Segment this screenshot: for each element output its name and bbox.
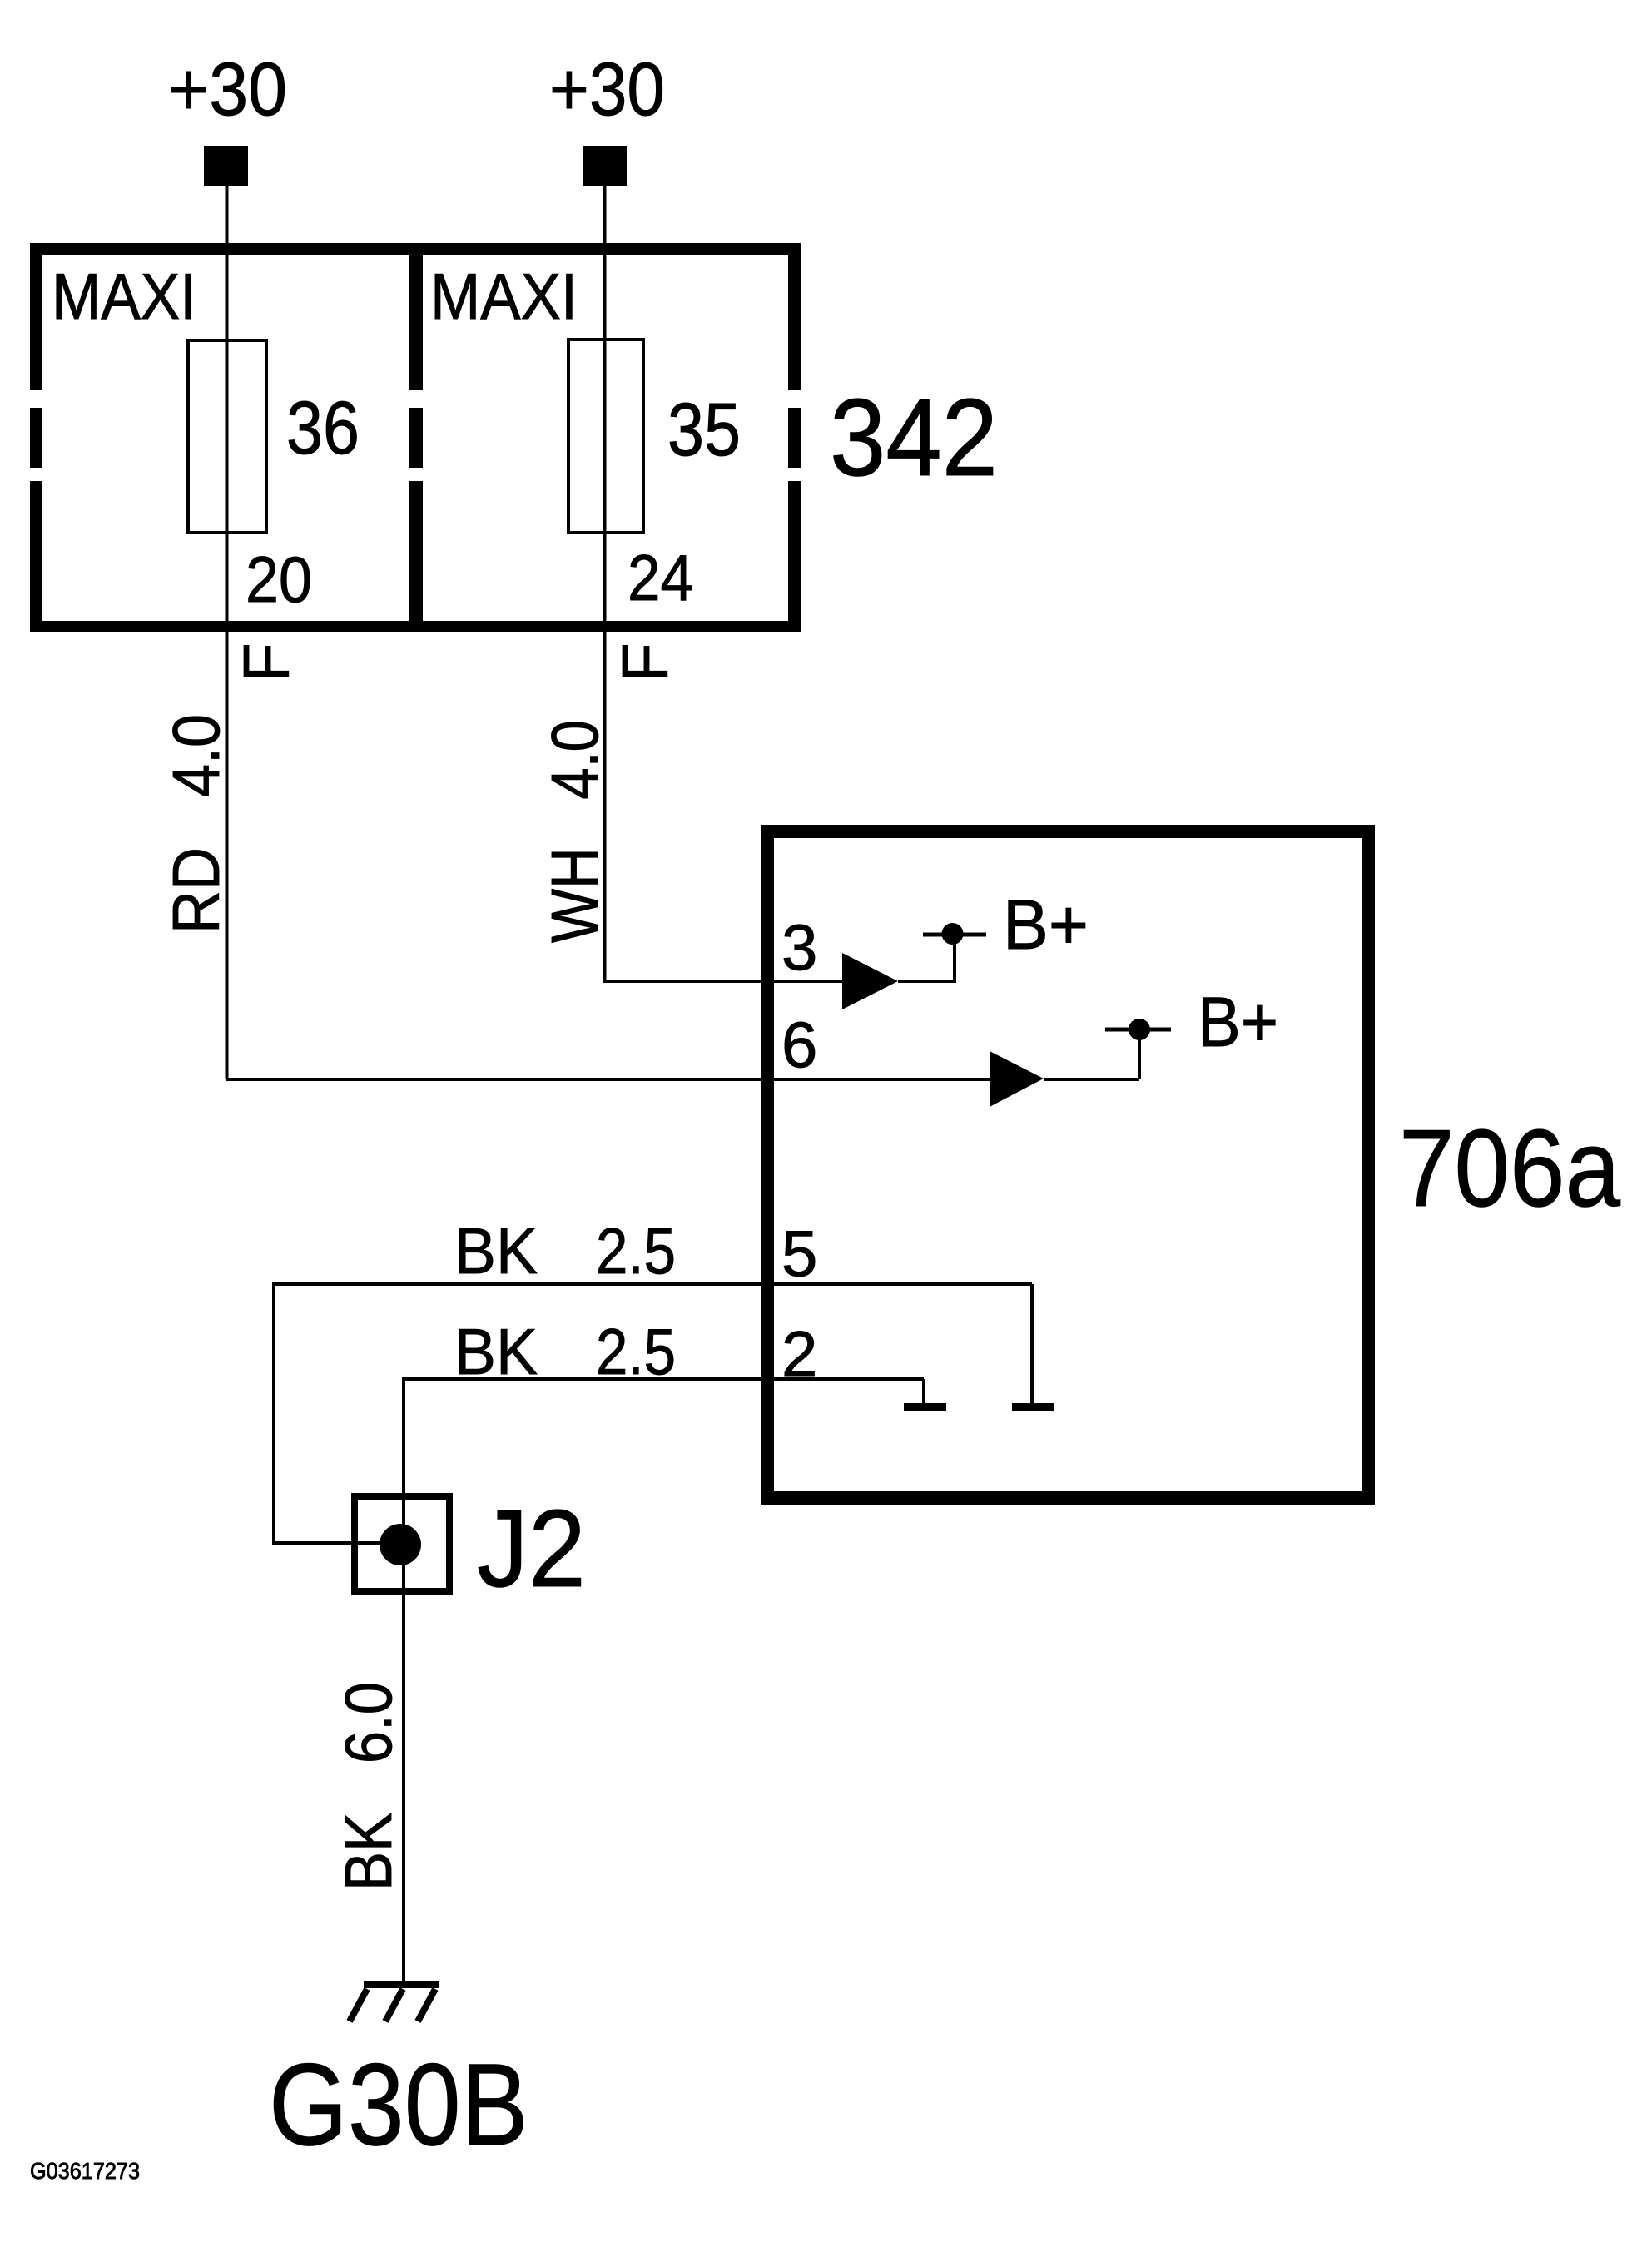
svg-text:35: 35 — [667, 389, 741, 472]
svg-text:706a: 706a — [1399, 1107, 1621, 1229]
svg-text:MAXI: MAXI — [52, 260, 196, 333]
svg-text:MAXI: MAXI — [430, 260, 578, 333]
svg-text:BK 6.0: BK 6.0 — [331, 1682, 405, 1891]
svg-text:20: 20 — [246, 543, 312, 616]
svg-text:G30B: G30B — [269, 2039, 528, 2170]
svg-text:6: 6 — [781, 1008, 817, 1081]
svg-text:2: 2 — [781, 1317, 817, 1391]
svg-text:5: 5 — [781, 1217, 817, 1290]
svg-text:3: 3 — [781, 910, 817, 984]
svg-text:WH 4.0: WH 4.0 — [538, 720, 612, 943]
svg-text:2.5: 2.5 — [596, 1214, 676, 1287]
svg-text:BK: BK — [454, 1214, 538, 1287]
svg-text:RD 4.0: RD 4.0 — [159, 714, 233, 934]
svg-text:J2: J2 — [477, 1487, 586, 1610]
svg-text:342: 342 — [830, 376, 998, 498]
svg-text:F: F — [230, 642, 303, 682]
svg-text:B+: B+ — [1003, 885, 1089, 964]
svg-text:+30: +30 — [549, 48, 665, 131]
svg-text:BK: BK — [454, 1315, 538, 1388]
svg-text:24: 24 — [628, 541, 693, 614]
svg-text:F: F — [608, 642, 682, 682]
svg-text:+30: +30 — [168, 48, 287, 131]
svg-text:G03617273: G03617273 — [30, 2158, 140, 2184]
svg-text:B+: B+ — [1198, 983, 1278, 1061]
svg-text:36: 36 — [286, 387, 360, 470]
svg-text:2.5: 2.5 — [596, 1315, 676, 1388]
